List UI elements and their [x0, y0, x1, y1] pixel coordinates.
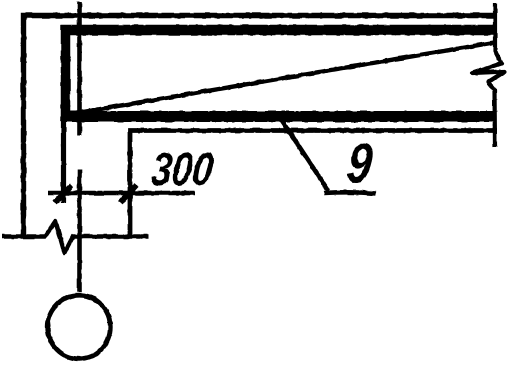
svg-text:300: 300 — [149, 143, 216, 195]
svg-text:9: 9 — [344, 131, 376, 194]
